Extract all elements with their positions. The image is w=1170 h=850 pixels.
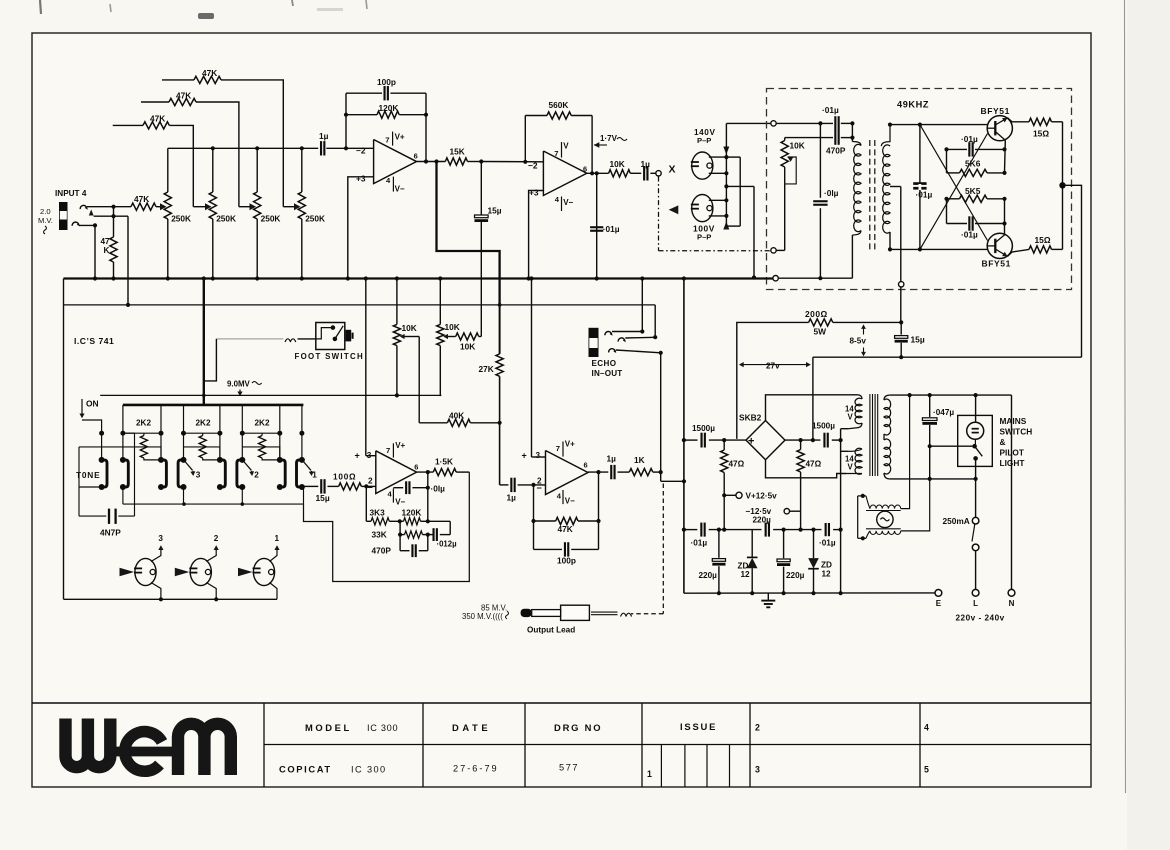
pot 10K-b bbox=[439, 279, 441, 325]
svg-text:1µ: 1µ bbox=[607, 454, 617, 464]
resistor 1K bbox=[629, 469, 653, 476]
svg-text:220µ: 220µ bbox=[786, 571, 805, 580]
svg-text:6: 6 bbox=[583, 164, 587, 173]
terminal L bbox=[972, 589, 979, 596]
playback head 3 bbox=[135, 558, 156, 585]
resistor 15R upper bbox=[1029, 118, 1052, 125]
svg-text:1500µ: 1500µ bbox=[812, 422, 835, 431]
svg-text:−: − bbox=[368, 483, 373, 493]
svg-text:V−: V− bbox=[395, 498, 405, 507]
potentiometer 250K-4 bbox=[301, 148, 303, 192]
wire to U2 inverting input bbox=[481, 161, 543, 163]
oscillator transformer T1 primary bbox=[851, 123, 853, 141]
svg-text:LIGHT: LIGHT bbox=[1000, 458, 1025, 468]
svg-text:IC 300: IC 300 bbox=[351, 765, 386, 775]
svg-text:10K: 10K bbox=[790, 141, 805, 151]
switch contact bbox=[974, 439, 976, 446]
jack tip contact bbox=[89, 210, 94, 216]
capacitor 1u input of U1 bbox=[320, 141, 322, 155]
svg-text:2K2: 2K2 bbox=[136, 419, 151, 428]
svg-text:250K: 250K bbox=[171, 214, 191, 224]
ground line bbox=[684, 592, 935, 594]
svg-text:1: 1 bbox=[312, 471, 317, 480]
svg-text:7: 7 bbox=[556, 444, 560, 453]
wire lower contact to ground bus bbox=[79, 225, 95, 278]
svg-text:5K5: 5K5 bbox=[965, 186, 981, 196]
svg-text:47K: 47K bbox=[202, 68, 217, 78]
Q2 network .01u bbox=[947, 223, 968, 225]
svg-text:V: V bbox=[848, 463, 854, 472]
mains live rail top bbox=[889, 394, 1011, 396]
playback head 2 bbox=[190, 558, 211, 585]
svg-text:V+: V+ bbox=[395, 133, 405, 142]
svg-text:·01µ: ·01µ bbox=[961, 134, 978, 144]
negative rail bbox=[684, 529, 697, 531]
capacitor .01u-neg1 bbox=[700, 523, 702, 537]
zener ZD12-2 bbox=[813, 530, 815, 559]
resistor 40K bbox=[419, 422, 447, 424]
arrow 100V bbox=[723, 222, 729, 230]
jack contact hook lower bbox=[72, 222, 79, 226]
wire U2 +3 to ground bus bbox=[529, 191, 544, 279]
preset 10K osc bbox=[784, 138, 786, 141]
scanner specks top edge bbox=[40, 0, 41, 14]
svg-text:−: − bbox=[537, 483, 542, 493]
resistor 15K bbox=[445, 158, 467, 165]
feedback 120K U1 bbox=[345, 93, 347, 148]
echo jack symbol bbox=[589, 328, 599, 357]
cross-coupling wires bbox=[920, 125, 988, 241]
mains rail bottom bbox=[889, 478, 975, 480]
svg-text:7: 7 bbox=[385, 135, 389, 144]
svg-text:560K: 560K bbox=[549, 100, 569, 110]
svg-text:2: 2 bbox=[214, 534, 219, 543]
svg-text:BFY51: BFY51 bbox=[982, 259, 1011, 269]
wire U2 output bbox=[587, 172, 609, 174]
svg-text:1·5K: 1·5K bbox=[435, 457, 453, 467]
svg-text:ON: ON bbox=[86, 399, 99, 409]
svg-text:2: 2 bbox=[755, 723, 760, 733]
label 27v dimension bbox=[741, 364, 809, 366]
wire ground into osc bbox=[778, 277, 852, 279]
op-amp U1 bbox=[374, 140, 417, 184]
transistor Q1 BFY51 bbox=[987, 116, 1012, 141]
svg-text:V−: V− bbox=[565, 496, 575, 505]
svg-text:40K: 40K bbox=[449, 411, 464, 421]
potentiometer 250K-2 bbox=[212, 148, 214, 192]
svg-text:6: 6 bbox=[414, 462, 418, 471]
wire footswitch (screened) bbox=[216, 338, 283, 340]
svg-text:6: 6 bbox=[414, 151, 418, 160]
echo line corner bbox=[654, 305, 656, 337]
capacitor .01u U3 pin4 bbox=[393, 487, 403, 489]
svg-text:47Ω: 47Ω bbox=[806, 460, 822, 469]
svg-text:FOOT SWITCH: FOOT SWITCH bbox=[295, 352, 365, 361]
osc bottom rail bbox=[890, 248, 987, 250]
svg-text:V+: V+ bbox=[395, 441, 405, 450]
transistor Q2 BFY51 bbox=[987, 233, 1012, 258]
capacitor 1u to erase connector bbox=[630, 172, 641, 174]
terminal osc supply tap bbox=[899, 282, 904, 287]
echo hook 1 bbox=[605, 331, 612, 335]
svg-text:10K: 10K bbox=[402, 323, 417, 333]
svg-text:10K: 10K bbox=[460, 342, 475, 352]
wire 1500u-1 bbox=[684, 439, 698, 441]
capacitor 470P bbox=[785, 137, 833, 139]
T2 primary bbox=[884, 395, 889, 400]
svg-text:X: X bbox=[669, 164, 676, 176]
wire U1 output to mixer (thick) bbox=[437, 162, 500, 305]
svg-text:3: 3 bbox=[536, 451, 541, 460]
svg-text:15Ω: 15Ω bbox=[1033, 129, 1049, 139]
svg-text:350 M.V.((((: 350 M.V.(((( bbox=[462, 612, 503, 621]
resistor 47K input-2 bbox=[141, 101, 169, 103]
svg-text:220µ: 220µ bbox=[699, 571, 718, 580]
resistor 5K5 bbox=[960, 195, 988, 202]
resistor 47R-1 bbox=[723, 440, 725, 450]
svg-text:·047µ: ·047µ bbox=[933, 408, 954, 417]
svg-text:47Ω: 47Ω bbox=[729, 460, 745, 469]
capacitor .01u-neg2 bbox=[825, 523, 827, 536]
wire Q2 emitter to 15R bbox=[1008, 249, 1030, 256]
feedback 47K U4 bbox=[533, 485, 535, 550]
wire N bbox=[1011, 395, 1013, 589]
head wiring bbox=[709, 156, 727, 158]
wire echo hook1 ground bbox=[641, 279, 643, 332]
svg-text:1: 1 bbox=[275, 534, 280, 543]
svg-text:1K: 1K bbox=[634, 455, 645, 465]
T2 core bbox=[869, 394, 871, 476]
capacitor 1u output bbox=[610, 465, 612, 479]
bridge rectifier SKB2 bbox=[746, 421, 785, 460]
capacitor 220u-1 bbox=[718, 530, 720, 558]
osc supply rail bbox=[813, 356, 1082, 358]
svg-text:+3: +3 bbox=[529, 187, 539, 197]
svg-text:·012µ: ·012µ bbox=[437, 540, 458, 549]
capacitor 470P fb bbox=[399, 535, 401, 551]
wire U4 output bbox=[588, 471, 608, 473]
wire jack tip down to echo line bbox=[127, 216, 129, 305]
jack contact hook upper bbox=[80, 205, 87, 209]
svg-text:15µ: 15µ bbox=[911, 335, 925, 345]
svg-text:IN–OUT: IN–OUT bbox=[592, 369, 623, 378]
wire to switch bbox=[930, 445, 975, 447]
svg-text:·01µ: ·01µ bbox=[822, 105, 839, 115]
svg-text:COPICAT: COPICAT bbox=[279, 764, 332, 775]
svg-text:47K: 47K bbox=[134, 194, 149, 204]
capacitor .01u osc lower bbox=[819, 123, 821, 197]
svg-text:V+: V+ bbox=[565, 439, 575, 448]
svg-text:220v - 240v: 220v - 240v bbox=[956, 614, 1005, 623]
svg-text:V+12·5v: V+12·5v bbox=[746, 492, 778, 501]
wiper arrow into pot 250K-1 bbox=[156, 206, 161, 208]
svg-text:−2: −2 bbox=[356, 145, 366, 155]
svg-text:15µ: 15µ bbox=[488, 206, 502, 216]
wire sw1 to 15u bbox=[304, 485, 319, 487]
erase head 140V P-P bbox=[692, 152, 713, 179]
svg-text:&: & bbox=[1000, 437, 1006, 447]
bridge AC top bbox=[766, 395, 858, 421]
svg-text:V−: V− bbox=[563, 198, 573, 207]
svg-text:250K: 250K bbox=[216, 214, 236, 224]
paper edge line bbox=[1125, 0, 1126, 793]
svg-text:2: 2 bbox=[254, 471, 259, 480]
echo hook 3 bbox=[609, 349, 616, 353]
switch lower chain bbox=[122, 487, 124, 504]
svg-text:·0lµ: ·0lµ bbox=[824, 188, 839, 198]
svg-text:ECHO: ECHO bbox=[592, 359, 617, 368]
op-amp U3 bbox=[376, 451, 417, 494]
resistor 27K bbox=[496, 354, 503, 376]
svg-text:+: + bbox=[522, 451, 527, 461]
resistor 5K6 bbox=[960, 169, 988, 176]
left ground loop bbox=[63, 279, 65, 600]
switch common bus (thick) bbox=[203, 279, 205, 405]
playback head 1 bbox=[253, 558, 274, 585]
capacitor 4N7P bbox=[108, 509, 110, 524]
svg-text:SKB2: SKB2 bbox=[739, 413, 762, 423]
svg-text:3: 3 bbox=[196, 471, 201, 480]
capacitor 220u series bbox=[765, 523, 767, 537]
svg-text:SWITCH: SWITCH bbox=[1000, 427, 1033, 437]
svg-text:5K6: 5K6 bbox=[965, 159, 981, 169]
output jack plug bbox=[561, 605, 590, 620]
wire jack to 47K bbox=[87, 206, 131, 208]
wire signal bus to C1 bbox=[168, 147, 318, 149]
arrow signal into bias head bbox=[669, 205, 679, 214]
input jack J4 bbox=[59, 202, 68, 230]
svg-text:15Ω: 15Ω bbox=[1035, 235, 1051, 245]
capacitor .047u bbox=[929, 395, 931, 417]
svg-text:3: 3 bbox=[158, 534, 163, 543]
svg-text:2.0: 2.0 bbox=[40, 207, 51, 216]
arrow 140V bbox=[723, 147, 729, 155]
svg-text:10K: 10K bbox=[445, 322, 460, 332]
svg-text:3: 3 bbox=[755, 765, 760, 775]
resistor 47K input-3 bbox=[113, 124, 143, 126]
svg-text:120K: 120K bbox=[379, 103, 399, 113]
svg-text:470P: 470P bbox=[826, 146, 846, 156]
svg-text:MAINS: MAINS bbox=[1000, 416, 1027, 426]
svg-text:9.0MV: 9.0MV bbox=[227, 380, 251, 389]
capacitor .012u bbox=[432, 528, 434, 541]
bias head 100V P-P bbox=[692, 195, 713, 222]
switch contact links bbox=[101, 433, 103, 460]
motor wires bbox=[901, 395, 910, 509]
svg-text:·01µ: ·01µ bbox=[691, 539, 708, 548]
svg-text:K: K bbox=[104, 246, 110, 255]
svg-text:6: 6 bbox=[584, 461, 588, 470]
svg-text:E: E bbox=[936, 599, 942, 608]
svg-text:250K: 250K bbox=[261, 214, 281, 224]
oscillator dashed box bbox=[767, 89, 1072, 290]
svg-text:ISSUE: ISSUE bbox=[680, 721, 717, 732]
svg-text:·0lµ: ·0lµ bbox=[431, 483, 446, 493]
capacitor .01u at U2 output bbox=[596, 173, 598, 278]
bridge AC bottom bbox=[766, 460, 847, 478]
svg-text:100Ω: 100Ω bbox=[333, 473, 356, 482]
svg-text:Output Lead: Output Lead bbox=[527, 626, 575, 635]
centre tap rail bbox=[840, 429, 842, 594]
label 1.7V measurement bbox=[594, 142, 599, 148]
potentiometer 250K-3 bbox=[256, 148, 258, 192]
svg-text:MODEL: MODEL bbox=[305, 722, 352, 733]
connector X bbox=[656, 171, 661, 176]
transformer core bbox=[869, 140, 871, 250]
svg-text:2K2: 2K2 bbox=[255, 419, 270, 428]
svg-text:BFY51: BFY51 bbox=[981, 106, 1010, 116]
resistor 47K vertical bbox=[113, 207, 115, 237]
chassis ground symbol bbox=[767, 593, 769, 600]
power rail left (from bus) bbox=[683, 279, 685, 594]
Q1 network .01u bbox=[1004, 140, 1007, 173]
zener ZD12-1 bbox=[751, 530, 753, 558]
svg-text:5W: 5W bbox=[814, 327, 827, 337]
capacitor 1500u-2 bbox=[823, 433, 825, 448]
ground bus bbox=[64, 277, 773, 279]
svg-text:120K: 120K bbox=[402, 508, 422, 518]
svg-text:1·7V: 1·7V bbox=[600, 134, 618, 143]
resistor 100R bbox=[339, 483, 362, 490]
svg-text:+: + bbox=[355, 450, 360, 460]
wire bias head to record amp line bbox=[726, 185, 754, 187]
svg-text:27v: 27v bbox=[766, 361, 780, 370]
wire U4 +3 to ground bus bbox=[531, 279, 533, 458]
osc output rail bbox=[1062, 122, 1064, 250]
svg-text:200Ω: 200Ω bbox=[805, 309, 828, 319]
svg-text:P–P: P–P bbox=[697, 136, 711, 145]
feedback loop to switch 1 bbox=[304, 472, 470, 581]
mains switch box bbox=[958, 415, 993, 466]
svg-text:47: 47 bbox=[101, 237, 111, 246]
svg-text:12: 12 bbox=[822, 570, 832, 579]
svg-text:100p: 100p bbox=[557, 556, 576, 566]
wire U3 output bbox=[417, 471, 434, 473]
svg-text:15K: 15K bbox=[450, 147, 465, 157]
resistor 1.5K bbox=[433, 469, 456, 476]
svg-text:100p: 100p bbox=[377, 77, 396, 87]
svg-text:1µ: 1µ bbox=[507, 493, 517, 503]
U3 feedback network bbox=[365, 486, 367, 521]
svg-text:N: N bbox=[1009, 599, 1015, 608]
echo feed line bbox=[64, 304, 656, 306]
resistor 47K input bbox=[131, 203, 156, 210]
svg-text:P–P: P–P bbox=[697, 233, 711, 242]
svg-text:577: 577 bbox=[559, 763, 579, 773]
svg-text:10K: 10K bbox=[610, 159, 625, 169]
switch contact stubs bbox=[122, 405, 124, 433]
fuse 250mA bbox=[972, 517, 979, 524]
logo WEM bbox=[66, 719, 231, 776]
resistor 47R-2 bbox=[800, 440, 802, 449]
capacitor 15u bbox=[480, 162, 482, 215]
svg-text:4N7P: 4N7P bbox=[100, 528, 121, 538]
resistor 10K U2 output bbox=[609, 170, 631, 177]
svg-text:·01µ: ·01µ bbox=[961, 230, 978, 240]
svg-text:47K: 47K bbox=[176, 91, 191, 101]
resistor 200R 5W bbox=[737, 322, 809, 439]
svg-text:−2: −2 bbox=[528, 160, 538, 170]
resistors 2K2 bbox=[123, 432, 161, 434]
svg-text:M.V.: M.V. bbox=[38, 216, 53, 225]
svg-text:1µ: 1µ bbox=[319, 131, 329, 141]
svg-text:12: 12 bbox=[741, 570, 751, 579]
switch step wires bbox=[102, 447, 161, 460]
foot switch jack bbox=[346, 330, 352, 342]
svg-text:V: V bbox=[848, 413, 854, 422]
svg-text:4: 4 bbox=[924, 723, 929, 733]
svg-text:1500µ: 1500µ bbox=[692, 424, 715, 433]
capacitor 100p U4 bbox=[534, 548, 563, 550]
svg-text:I.C’S 741: I.C’S 741 bbox=[74, 336, 114, 346]
wire 10K to osc bottom rail bbox=[784, 184, 786, 251]
resistor 3K3 bbox=[371, 518, 389, 525]
wire jack tip bbox=[94, 215, 128, 217]
bridge negative wire bbox=[785, 439, 820, 441]
svg-text:3K3: 3K3 bbox=[370, 508, 386, 518]
terminal N bbox=[1008, 589, 1015, 596]
svg-text:8-5v: 8-5v bbox=[850, 337, 867, 346]
capacitor 15u smoothing bbox=[900, 322, 902, 334]
capacitor .01u osc coupling bbox=[834, 116, 836, 130]
capacitor .01u tank bbox=[919, 125, 921, 250]
switch bracket contacts bbox=[102, 460, 107, 487]
foot switch box bbox=[316, 323, 345, 350]
terminal osc input top bbox=[771, 121, 776, 126]
svg-text:INPUT 4: INPUT 4 bbox=[55, 189, 87, 198]
svg-text:250mA: 250mA bbox=[943, 516, 970, 526]
output screen to ground rail bbox=[661, 480, 684, 482]
svg-text:7: 7 bbox=[554, 149, 558, 158]
tone wiring + 4N7P bbox=[79, 446, 102, 448]
pilot light bbox=[975, 395, 977, 422]
resistor 120K fb bbox=[404, 518, 421, 525]
feedback capacitor 100p U1 bbox=[346, 92, 382, 94]
svg-text:27-6-79: 27-6-79 bbox=[453, 764, 499, 774]
svg-text:DATE: DATE bbox=[452, 722, 491, 733]
op-amp U2 bbox=[543, 151, 586, 196]
svg-text:ZD: ZD bbox=[821, 561, 832, 570]
svg-text:33K: 33K bbox=[372, 530, 387, 540]
svg-text:+3: +3 bbox=[356, 174, 366, 184]
svg-text:IC 300: IC 300 bbox=[367, 723, 398, 733]
wire Q1 emitter to 15R bbox=[1008, 118, 1030, 122]
svg-text:+: + bbox=[748, 435, 754, 447]
svg-text:·01µ: ·01µ bbox=[819, 539, 836, 548]
tape deck dash boundary bbox=[658, 177, 660, 251]
svg-text:L: L bbox=[973, 599, 978, 608]
wire erase head to oscillator terminal bbox=[726, 122, 771, 124]
pot 10K-a bbox=[396, 279, 398, 325]
svg-text:PILOT: PILOT bbox=[1000, 448, 1024, 458]
output lead dashed bbox=[662, 484, 664, 614]
resistor 15R lower bbox=[1029, 246, 1052, 253]
svg-text:27K: 27K bbox=[479, 364, 494, 374]
echo hook 2 bbox=[618, 338, 625, 342]
wire U3 +3 to ground bus bbox=[365, 279, 367, 456]
svg-text:47K: 47K bbox=[150, 113, 165, 123]
op-amp U4 bbox=[546, 451, 589, 495]
svg-text:V−: V− bbox=[395, 185, 405, 194]
wire echo out bbox=[660, 353, 662, 482]
capacitor 1u into U4 bbox=[500, 484, 509, 486]
svg-text:·01µ: ·01µ bbox=[916, 190, 933, 200]
wire U1 output bbox=[417, 161, 446, 163]
terminal E bbox=[935, 590, 942, 597]
svg-text:1: 1 bbox=[647, 769, 652, 779]
svg-text:49KHZ: 49KHZ bbox=[897, 100, 929, 110]
resistor 33K bbox=[405, 531, 423, 538]
